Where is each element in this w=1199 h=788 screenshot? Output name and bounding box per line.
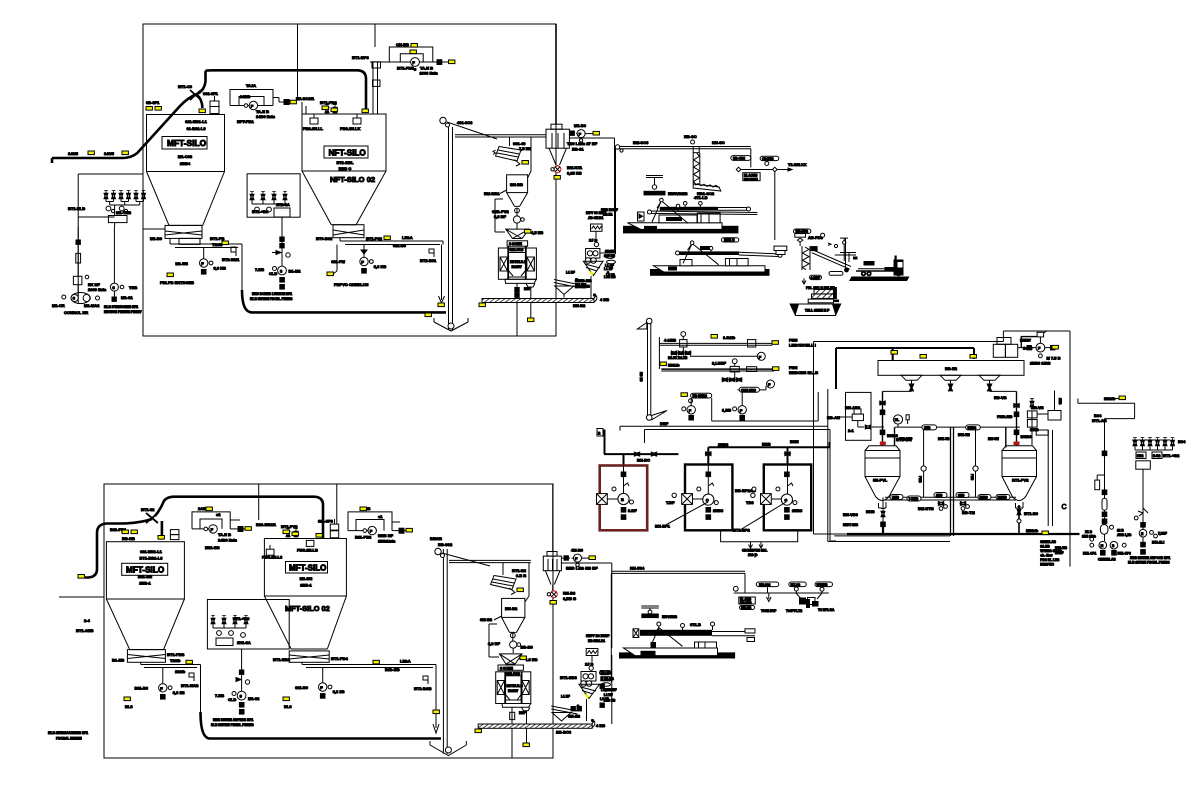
silo S3 discharge [141, 662, 201, 715]
labels left edge [76, 618, 94, 633]
svg-text:BN-B2: BN-B2 [505, 606, 518, 611]
svg-text:L1 NF: L1 NF [604, 267, 613, 271]
L post + pedestal left of truck [833, 287, 839, 302]
svg-text:2BB4: 2BB4 [180, 161, 191, 166]
svg-text:BB-BC3: BB-BC3 [556, 730, 572, 735]
svg-text:B11-PB2: B11-PB2 [355, 535, 372, 540]
svg-text:SRBBLAB: SRBBLAB [1040, 540, 1056, 544]
silo S2 slide gate [316, 225, 383, 241]
svg-text:611-3P3: 611-3P3 [318, 519, 334, 524]
left manifold cluster (6 valves) [68, 191, 146, 227]
svg-text:BT3-BB: BT3-BB [577, 278, 592, 283]
blower box B3 [733, 465, 811, 533]
svg-text:NFT-SILO 02: NFT-SILO 02 [330, 175, 375, 184]
V2 red inlet [1014, 442, 1020, 446]
svg-text:2NB: 2NB [958, 494, 965, 498]
svg-text:4,1 B NF: 4,1 B NF [604, 688, 617, 692]
svg-text:S10 NF: S10 NF [604, 254, 615, 258]
svg-text:CONROL NR: CONROL NR [64, 310, 88, 315]
NN-5S4 line [611, 566, 745, 683]
screener 2 small [554, 271, 592, 298]
svg-text:PBLPB EXTBGEB: PBLPB EXTBGEB [160, 280, 194, 285]
svg-text:140/5: 140/5 [68, 151, 79, 156]
svg-text:T20/b: T20/b [212, 242, 223, 247]
thick supply pipe bottom section [85, 497, 323, 578]
right cluster pipes [1078, 399, 1135, 542]
silo S3 bottom instruments [134, 668, 184, 700]
svg-text:2NB3: 2NB3 [713, 508, 724, 513]
svg-text:120/b: 120/b [175, 669, 186, 674]
svg-text:BBB HOBF: BBB HOBF [601, 208, 618, 212]
svg-text:BN33: BN33 [980, 496, 988, 500]
S SCBIN box 2 [498, 665, 523, 670]
ship 3 hull [624, 642, 718, 656]
svg-text:BT1-32: BT1-32 [141, 507, 155, 512]
svg-text:M11-BB: M11-BB [205, 545, 220, 550]
flag box left of ship1 [638, 212, 645, 221]
elevator top conveyor line [455, 135, 546, 146]
svg-text:BBB BBTBN ABPCCB BF1: BBB BBTBN ABPCCB BF1 [1130, 556, 1170, 560]
svg-text:BB-AN: BB-AN [827, 415, 840, 420]
svg-text:4-BBF: 4-BBF [811, 276, 820, 280]
svg-text:BNB: BNB [866, 509, 875, 514]
svg-text:BB.B1: BB.B1 [603, 213, 613, 217]
svg-text:BT1-VA7: BT1-VA7 [899, 437, 912, 441]
bucket elevator 2 [430, 536, 490, 756]
middle bottom connector lines [620, 392, 828, 431]
svg-text:BN-BB: BN-BB [510, 182, 523, 187]
silo S2 bottom instruments [331, 245, 386, 288]
svg-text:7-BNB: 7-BNB [909, 497, 919, 501]
distribution row [733, 582, 832, 593]
svg-text:MLB DTBIA/CEEB NF1: MLB DTBIA/CEEB NF1 [104, 305, 138, 309]
svg-text:B21-BB2/1: B21-BB2/1 [256, 522, 277, 527]
svg-text:NFT-SILO: NFT-SILO [329, 149, 367, 158]
svg-text:BT1-+B2: BT1-+B2 [1163, 453, 1180, 458]
svg-text:L1B NB: L1B NB [604, 275, 616, 279]
svg-text:BB-BB1.B1: BB-BB1.B1 [588, 639, 605, 643]
svg-text:BB-3S2: BB-3S2 [438, 542, 453, 547]
thick bottom pipe to elevator [242, 290, 446, 312]
valve X junction NFT-C0 [178, 84, 201, 100]
svg-text:BNB3: BNB3 [968, 426, 977, 430]
BM-BD2 pill group [794, 229, 825, 246]
rotary w/ red cross bagfilter1 [551, 165, 583, 176]
svg-text:BT1-P02: BT1-P02 [366, 236, 383, 241]
right cluster 2 (DIFV) [560, 634, 611, 721]
thick bottom pipe to elevator 2 [201, 712, 442, 739]
ground hatch 2 [478, 719, 605, 735]
svg-text:011-PM: 011-PM [331, 259, 345, 264]
svg-text:BT2-BM1: BT2-BM1 [222, 257, 240, 262]
left side instruments V1 [827, 392, 884, 440]
transfer pipe 1 [659, 332, 815, 369]
svg-text:3,3 BF: 3,3 BF [494, 214, 507, 219]
top-right filter + blower F [993, 331, 1060, 365]
svg-text:M1-C03: M1-C03 [178, 154, 193, 159]
svg-text:L1 NF: L1 NF [566, 271, 575, 275]
transfer pipe 2 [690, 352, 765, 360]
svg-text:BT1-BB1-L3: BT1-BB1-L3 [140, 556, 164, 561]
pipe pair loop2 to silo2 [352, 55, 381, 114]
svg-text:BB-E2: BB-E2 [945, 366, 958, 371]
silo S3 top boxes [170, 530, 179, 540]
svg-text:BNB: BNB [892, 496, 900, 500]
svg-text:BBD L/bb BB BF: BBD L/bb BB BF [566, 566, 598, 571]
svg-text:L2 NF: L2 NF [604, 693, 613, 697]
svg-text:MLB EBTBN PBCBL PEEBB: MLB EBTBN PBCBL PEEBB [250, 297, 293, 301]
svg-text:B11-B0: B11-B0 [134, 686, 148, 691]
hook ship1 [646, 176, 663, 190]
svg-text:BB B3: BB B3 [639, 372, 643, 382]
svg-text:S1.BB: S1.BB [1040, 545, 1050, 549]
svg-text:BT1-PBB: BT1-PBB [167, 652, 184, 657]
svg-text:M1-BN: M1-BN [300, 576, 313, 581]
svg-text:T04N-BVP: T04N-BVP [761, 609, 777, 613]
svg-text:BT1-NAB: BT1-NAB [181, 683, 199, 688]
svg-text:MLB 2BTBBA/CBBBB BF1: MLB 2BTBBA/CBBBB BF1 [48, 731, 88, 735]
svg-text:MBb/b: MBb/b [1026, 528, 1039, 533]
svg-text:BtrBtV: BtrBtV [512, 265, 523, 269]
svg-text:2BB-1: 2BB-1 [300, 583, 312, 588]
silo S3 [106, 542, 184, 650]
svg-text:BT2-B91: BT2-B91 [420, 258, 437, 263]
svg-text:B1-M2: B1-M2 [289, 269, 302, 274]
svg-text:BBB BBTBN ABPBBB BF1: BBB BBTBN ABPBBB BF1 [213, 718, 253, 722]
svg-text:BBP: BBP [519, 711, 527, 715]
svg-text:611-B0: 611-B0 [295, 685, 309, 690]
svg-text:T04FT-LX2: T04FT-LX2 [786, 609, 802, 613]
truck-load cluster [786, 593, 835, 613]
silo S1 slide gate + feeder [150, 225, 242, 290]
svg-text:7.BB: 7.BB [215, 693, 224, 698]
svg-text:NN-5S4: NN-5S4 [630, 566, 645, 571]
pipe labels 140/5 [68, 151, 115, 156]
svg-text:6M-B2: 6M-B2 [480, 617, 493, 622]
control loop 4 [348, 506, 411, 544]
svg-text:14B0 l/nin: 14B0 l/nin [218, 538, 237, 543]
labels row above vessels [899, 433, 999, 441]
svg-text:BNB: BNB [1030, 427, 1039, 432]
pipes right of V2 [1036, 430, 1052, 526]
vessel V2 NT-PV2 [1002, 446, 1037, 508]
manifold vertical line bottom [211, 649, 260, 727]
svg-text:BT1-+B3: BT1-+B3 [233, 616, 250, 621]
svg-text:BB-BBB2: BB-BBB2 [693, 394, 708, 398]
frame bottom-left section [59, 484, 553, 758]
transfer pipe 3 [661, 368, 774, 370]
svg-text:NBT-BB: NBT-BB [843, 522, 858, 527]
svg-text:BB-31: BB-31 [572, 147, 584, 152]
svg-text:RBV: RBV [1024, 339, 1032, 343]
X junction bottom [141, 507, 158, 523]
vertical pipes between vessels [918, 427, 978, 536]
ground hatch 1 [482, 293, 609, 308]
svg-text:L1 NF: L1 NF [561, 695, 570, 699]
right cluster 2 lines [561, 563, 611, 724]
svg-text:B1-XX B1-X3: B1-XX B1-X3 [668, 356, 688, 360]
svg-text:MFT-SILO 02: MFT-SILO 02 [285, 604, 330, 613]
svg-text:RN-B3: RN-B3 [563, 591, 576, 596]
svg-text:7,bBF: 7,bBF [1158, 532, 1167, 536]
svg-text:011-BB1-L1: 011-BB1-L1 [140, 549, 163, 554]
svg-text:24BB: 24BB [240, 94, 250, 99]
svg-text:0,BB B: 0,BB B [563, 596, 576, 601]
bag filter 1 [546, 124, 569, 167]
BBIZ pill [721, 238, 738, 242]
svg-text:M1-BC2/1: M1-BC2/1 [296, 96, 315, 101]
svg-text:B34: B34 [1178, 439, 1186, 444]
svg-text:M1-B0: M1-B0 [150, 236, 163, 241]
transfer pipe 4 + CBN pill [737, 380, 774, 392]
bucket elevator 1 [434, 117, 497, 331]
BLABB box [739, 597, 756, 610]
svg-text:C: C [1062, 504, 1067, 511]
svg-text:BK-2S: BK-2S [791, 583, 801, 587]
svg-text:M1-BB: M1-BB [175, 261, 188, 266]
svg-text:2-4: 2-4 [84, 618, 91, 623]
svg-text:M1-TBB: M1-TBB [116, 210, 131, 215]
svg-text:T1-BN-XX: T1-BN-XX [788, 162, 807, 167]
svg-text:T3 BF1-BA: T3 BF1-BA [818, 608, 835, 612]
svg-text:6M-B2: 6M-B2 [568, 714, 581, 719]
blower box B1 (maroon) [597, 466, 648, 531]
right cluster right column [1128, 508, 1170, 565]
svg-text:BM-SC3: BM-SC3 [633, 140, 649, 145]
hopper RN-B2 [480, 598, 525, 632]
svg-text:BT1-BB3: BT1-BB3 [560, 675, 578, 680]
svg-text:BT1-BP2: BT1-BP2 [733, 528, 750, 533]
svg-text:LBBCHCBLL I: LBBCHCBLL I [789, 343, 816, 348]
svg-text:1H1-3A: 1H1-3A [237, 640, 251, 645]
svg-text:TAJA: TAJA [246, 83, 256, 88]
screener 1 [493, 141, 531, 166]
silo S1 MFT-SILO [147, 115, 225, 226]
svg-text:2BB1/nin: 2BB1/nin [378, 539, 396, 544]
svg-text:CLD: CLD [228, 697, 236, 702]
svg-text:2bb |b: 2bb |b [748, 553, 757, 557]
BLACKB label box [743, 173, 760, 182]
vessel V1 5N-PVL [865, 446, 900, 508]
SRBBLAB text block [1040, 540, 1062, 567]
V2 outlet [1017, 505, 1039, 534]
left bottom instrument group [52, 227, 142, 315]
svg-text:c2: c2 [216, 512, 221, 517]
svg-text:NN1/b: NN1/b [668, 363, 680, 368]
svg-text:BT1-+B3: BT1-+B3 [252, 209, 269, 214]
svg-text:1,BB: 1,BB [722, 408, 731, 413]
svg-text:PB3.2N.LK: PB3.2N.LK [340, 126, 361, 131]
svg-text:BB-NB: BB-NB [122, 536, 135, 541]
svg-text:PB2.2N.LL: PB2.2N.LL [303, 126, 324, 131]
svg-text:NB-SC: NB-SC [684, 134, 697, 139]
svg-text:BT1-VB: BT1-VB [938, 437, 950, 441]
svg-text:BT1-AB: BT1-AB [1092, 418, 1107, 423]
lines around hopper2 [489, 563, 529, 657]
svg-text:DBF: DBF [660, 421, 669, 426]
svg-text:BM-BB1: BM-BB1 [484, 191, 500, 196]
valve cluster below pipe3 [722, 372, 742, 382]
left drop labels [601, 208, 618, 279]
svg-text:7,5 EB: 7,5 EB [519, 146, 531, 151]
svg-text:BB2: BB2 [1137, 454, 1144, 458]
svg-text:22 B: 22 B [1117, 529, 1124, 533]
vertical screw 2 [802, 246, 835, 290]
svg-text:1-B1/b: 1-B1/b [723, 335, 736, 340]
svg-text:BBCBBB: BBCBBB [744, 177, 759, 181]
svg-text:BT1-PN3: BT1-PN3 [397, 66, 414, 71]
svg-text:BT1-NLB: BT1-NLB [68, 206, 85, 211]
svg-text:CBCBBPBB BbL: CBCBBPBB BbL [742, 549, 767, 553]
svg-text:T.BF: T.BF [666, 500, 675, 505]
rotary under hopper2 [488, 633, 533, 653]
svg-text:011-B0: 011-B0 [393, 243, 407, 248]
valve cluster below pipe1 [668, 347, 691, 360]
svg-text:BBIZ B: BBIZ B [724, 238, 735, 242]
S SCRIN box [507, 241, 527, 246]
svg-text:401-3C3: 401-3C3 [457, 120, 473, 125]
right side valve cluster V2 [994, 391, 1061, 446]
svg-text:MFT-SILO: MFT-SILO [289, 564, 326, 573]
svg-text:TA.N B: TA.N B [218, 532, 231, 537]
svg-text:4 BB: 4 BB [596, 723, 605, 728]
ship 2 hull [654, 259, 766, 273]
svg-text:S SCRIN: S SCRIN [509, 242, 523, 246]
svg-text:3,3 KB: 3,3 KB [214, 266, 227, 271]
svg-text:601-3F1: 601-3F1 [203, 91, 219, 96]
svg-text:2-1: 2-1 [848, 428, 855, 433]
svg-text:EBRV2/2B: EBRV2/2B [668, 191, 688, 196]
svg-text:BT1-BBL: BT1-BBL [336, 160, 354, 165]
svg-text:BN2BB: BN2BB [817, 583, 829, 587]
vent mast [637, 318, 668, 426]
ship 3 jib [651, 628, 683, 647]
hook ship3 [641, 606, 677, 619]
bin vent F 2 [561, 548, 598, 571]
svg-text:T20/b: T20/b [170, 658, 181, 663]
svg-text:3,3 BF: 3,3 BF [488, 641, 501, 646]
svg-text:6T1.B: 6T1.B [690, 622, 701, 627]
truck loading conveyor [811, 238, 856, 275]
junction labels [110, 527, 137, 541]
svg-text:BT0-B02: BT0-B02 [316, 236, 333, 241]
svg-text:M1-S1: M1-S1 [121, 295, 134, 300]
top label M32/b [1104, 396, 1120, 401]
svg-text:PBPVC CHEBLCH: PBPVC CHEBLCH [334, 282, 369, 287]
control loop 3 [192, 506, 250, 550]
svg-text:CBN-BBB: CBN-BBB [741, 388, 757, 392]
svg-text:B-B2: B-B2 [1153, 454, 1161, 458]
svg-text:B11-BB: B11-BB [138, 574, 152, 579]
svg-text:M1-CR: M1-CR [52, 303, 65, 308]
svg-text:2NB: 2NB [936, 494, 943, 498]
silo S2 top fittings [296, 96, 361, 131]
drop arrow 1 [761, 593, 777, 613]
svg-text:DBFV B3 HBBF: DBFV B3 HBBF [586, 634, 609, 638]
left vertical line w/ filter [73, 227, 88, 296]
svg-text:BT1-PB: BT1-PB [210, 236, 225, 241]
relief flag S3 [181, 673, 199, 688]
middle cluster vertical line [250, 217, 301, 301]
silo S4 label [285, 562, 330, 614]
svg-text:NN-B2: NN-B2 [573, 303, 586, 308]
relief flag BT2-BM1 [222, 247, 240, 262]
silo S4 [264, 539, 346, 650]
svg-text:BT1-BAB: BT1-BAB [414, 686, 432, 691]
svg-text:140/5: 140/5 [104, 151, 115, 156]
svg-text:PBS.2N.L3: PBS.2N.L3 [262, 555, 283, 560]
svg-text:BBCBB: BBCBB [740, 601, 752, 605]
ship 1 hull [628, 213, 723, 229]
middle manifold cluster (between silos) [247, 174, 300, 217]
svg-text:c1: c1 [378, 514, 383, 519]
svg-text:2NB: 2NB [1058, 398, 1062, 405]
svg-text:BB-VB: BB-VB [994, 395, 1007, 400]
vertical screw conveyor 1 [693, 147, 721, 197]
bottom manifold [843, 493, 1016, 528]
weigh hopper funnel [506, 229, 544, 238]
svg-text:TB3: TB3 [746, 500, 754, 505]
svg-text:PNB: PNB [918, 476, 922, 483]
svg-text:0,25 KB: 0,25 KB [567, 171, 582, 176]
svg-text:BT1-BLI: BT1-BLI [1152, 541, 1164, 545]
silo S2 label [324, 146, 375, 184]
svg-text:BBNB: BBNB [998, 496, 1008, 500]
svg-text:BN-BC: BN-BC [637, 458, 650, 463]
svg-text:01-B21-L3: 01-B21-L3 [186, 126, 206, 131]
svg-text:BN-BB: BN-BB [741, 606, 752, 610]
svg-text:BBB NF: BBB NF [378, 533, 394, 538]
silo S2 vent drop [333, 245, 337, 275]
truck [840, 238, 910, 281]
ship 2 boom conveyor [676, 241, 783, 265]
svg-text:M1-MA2: M1-MA2 [84, 303, 100, 308]
svg-text:BNN: BNN [790, 439, 799, 444]
svg-text:B: B [621, 497, 624, 502]
svg-text:BL: BL [895, 418, 899, 422]
svg-text:4-1/2B: 4-1/2B [664, 338, 676, 343]
svg-text:FNR-NB: FNR-NB [997, 414, 1012, 419]
svg-text:2NB3: 2NB3 [718, 442, 729, 447]
right valve manifold (6) [1132, 438, 1186, 546]
screener 3 [491, 568, 527, 595]
ship 2 water band [650, 269, 770, 276]
blower feed pipes [604, 430, 830, 466]
blower bottoms join [721, 530, 798, 557]
silo S4 top fittings [256, 519, 339, 560]
svg-text:BT1-B9: BT1-B9 [1024, 511, 1039, 516]
svg-text:B1-BB: B1-BB [112, 658, 124, 663]
right cluster left column [1082, 413, 1131, 562]
svg-text:LBbA: LBbA [402, 235, 413, 240]
svg-text:BN-BP1: BN-BP1 [655, 524, 671, 529]
svg-text:2J B: 2J B [589, 238, 598, 243]
svg-text:TBB: TBB [129, 285, 137, 290]
V1 red inlet [880, 442, 886, 446]
svg-text:4T1-LB: 4T1-LB [694, 195, 708, 200]
scale/mixer unit 1 [498, 246, 536, 291]
svg-text:PN3: PN3 [970, 474, 974, 480]
svg-text:BM-VM: BM-VM [988, 437, 999, 441]
ship 1 boom conveyor [647, 195, 757, 223]
svg-text:CLD: CLD [269, 271, 277, 276]
svg-text:9B-3F1: 9B-3F1 [146, 100, 160, 105]
svg-text:WTBBb 33cFb: WTBBb 33cFb [1040, 549, 1062, 553]
svg-text:011-BB1-L1: 011-BB1-L1 [185, 119, 208, 124]
svg-text:PBS BL LBB: PBS BL LBB [1040, 558, 1060, 562]
svg-text:S SCBIN: S SCBIN [500, 666, 514, 670]
svg-text:M1-32: M1-32 [248, 696, 260, 701]
